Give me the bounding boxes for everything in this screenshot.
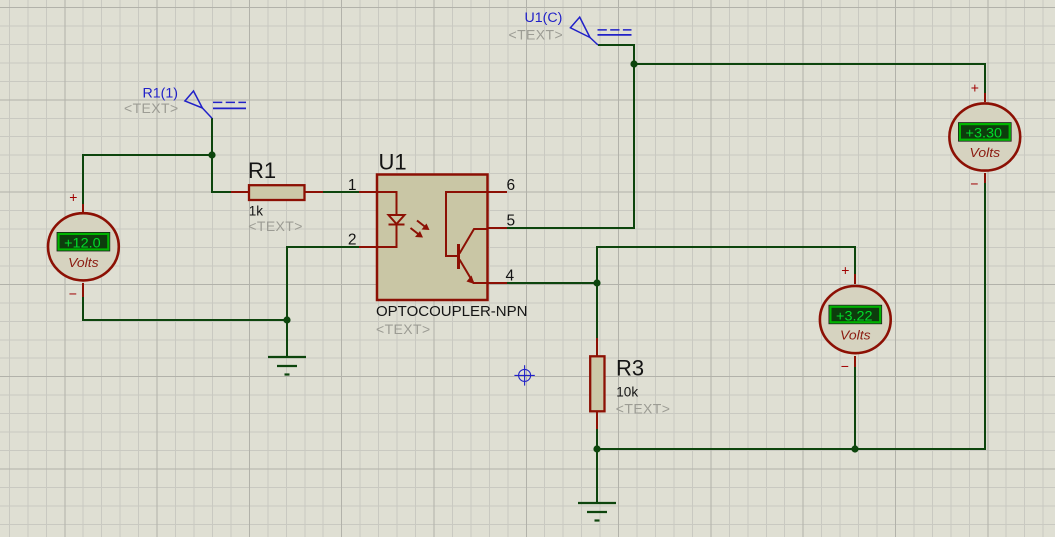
svg-text:−: − <box>841 358 849 374</box>
U1 LED (diode) <box>389 215 405 224</box>
wire probe tap <box>211 118 213 155</box>
probe R1(1) symbol <box>185 91 246 118</box>
wire meter1 minus to ground rail <box>83 296 287 320</box>
svg-text:6: 6 <box>507 177 516 194</box>
svg-text:−: − <box>69 285 77 301</box>
R3 top lead <box>596 338 598 357</box>
voltmeter V3 (+3.30) LCD <box>959 123 1012 141</box>
svg-text:R1: R1 <box>248 158 276 183</box>
wire node B down to U1 pin5 <box>507 64 634 228</box>
junction dot node B <box>630 60 637 67</box>
svg-text:Volts: Volts <box>68 256 99 270</box>
junction dot node D <box>593 445 600 452</box>
wire node B to meter3 plus <box>634 64 985 93</box>
voltmeter V1 (+12.0) body <box>48 213 119 280</box>
svg-text:Volts: Volts <box>840 329 871 343</box>
svg-text:U1(C): U1(C) <box>525 10 563 26</box>
wire U1 pin4 to node C <box>507 282 597 284</box>
meter2 plus pin <box>854 274 856 284</box>
svg-text:<TEXT>: <TEXT> <box>124 100 179 116</box>
voltmeter V1 (+12.0) LCD <box>57 233 110 251</box>
svg-text:+: + <box>69 189 77 205</box>
ground (bottom, R3) <box>578 503 616 521</box>
U1 base wire from pin6 <box>446 192 487 256</box>
transistor emitter <box>460 260 488 284</box>
meter3 minus pin <box>984 173 986 183</box>
meter1 minus pin <box>82 283 84 297</box>
wire probe U1(C) tap <box>598 45 634 64</box>
wire node C up to meter2 plus <box>597 247 855 283</box>
junction dot junction meter2 minus <box>851 445 858 452</box>
U1 pin5 stub <box>487 227 507 229</box>
svg-text:R3: R3 <box>616 355 644 380</box>
R1 right lead <box>304 191 323 193</box>
svg-text:2: 2 <box>348 232 357 249</box>
svg-text:+3.30: +3.30 <box>966 126 1003 141</box>
svg-text:<TEXT>: <TEXT> <box>376 321 431 337</box>
svg-text:1: 1 <box>348 177 357 194</box>
svg-text:−: − <box>970 176 978 192</box>
transistor emitter arrowhead <box>467 276 475 285</box>
svg-text:+: + <box>841 262 849 278</box>
U1 LED anode wire <box>377 192 397 215</box>
svg-text:OPTOCOUPLER-NPN: OPTOCOUPLER-NPN <box>376 304 528 320</box>
wire meter2 minus down to bottom rail <box>854 366 856 449</box>
transistor Q (inside U1) base bar <box>457 244 460 269</box>
svg-text:U1: U1 <box>379 150 407 175</box>
svg-text:4: 4 <box>506 268 515 285</box>
optocoupler U1 body <box>377 175 488 301</box>
svg-text:<TEXT>: <TEXT> <box>509 27 564 43</box>
resistor R3 <box>590 356 604 411</box>
junction dot node A <box>208 151 215 158</box>
R3 bottom lead <box>596 411 598 429</box>
U1 pin1 stub <box>359 191 378 193</box>
junction dot node C <box>593 279 600 286</box>
voltmeter V3 (+3.30) body <box>949 103 1020 170</box>
transistor collector <box>460 229 488 254</box>
voltmeter V2 (+3.22) body <box>820 286 891 353</box>
voltmeter V2 (+3.22) LCD <box>829 305 882 323</box>
resistor R1 <box>249 185 305 200</box>
wire R1 right to U1 pin1 <box>323 191 359 193</box>
wire bottom rail node D to meter3 minus <box>597 183 985 449</box>
U1 pin4 stub <box>487 282 507 284</box>
wire node D to ground <box>596 449 598 503</box>
svg-text:10k: 10k <box>616 385 638 400</box>
probe U1(C) symbol <box>570 17 631 45</box>
svg-text:+12.0: +12.0 <box>64 236 101 251</box>
U1 pin6 stub <box>487 191 507 193</box>
svg-text:+: + <box>971 79 979 95</box>
U1 LED cathode wire <box>377 225 397 248</box>
wire node A to R1 left <box>212 155 231 192</box>
U1 light arrow 2 <box>411 228 420 235</box>
svg-text:1k: 1k <box>249 203 264 218</box>
junction dot junction ground rail <box>283 316 290 323</box>
meter2 minus pin <box>854 356 856 367</box>
svg-text:<TEXT>: <TEXT> <box>248 218 303 234</box>
ground (left, meter1/U1 pin2) <box>268 357 306 375</box>
U1 light arrow 1 <box>417 221 426 228</box>
sheet origin marker <box>514 365 534 385</box>
U1 pin2 stub <box>359 246 378 248</box>
svg-text:5: 5 <box>507 213 516 230</box>
meter3 plus pin <box>984 93 986 102</box>
wire R3 bottom to node D <box>596 429 598 449</box>
svg-text:Volts: Volts <box>970 146 1001 160</box>
wire meter1 plus to node A <box>83 155 212 204</box>
wire U1 pin2 down to ground <box>287 247 359 357</box>
R1 left lead <box>231 191 250 193</box>
meter1 plus pin <box>82 204 84 212</box>
svg-text:<TEXT>: <TEXT> <box>616 401 671 417</box>
svg-text:+3.22: +3.22 <box>836 308 873 323</box>
wire node C down to R3 <box>596 283 598 338</box>
